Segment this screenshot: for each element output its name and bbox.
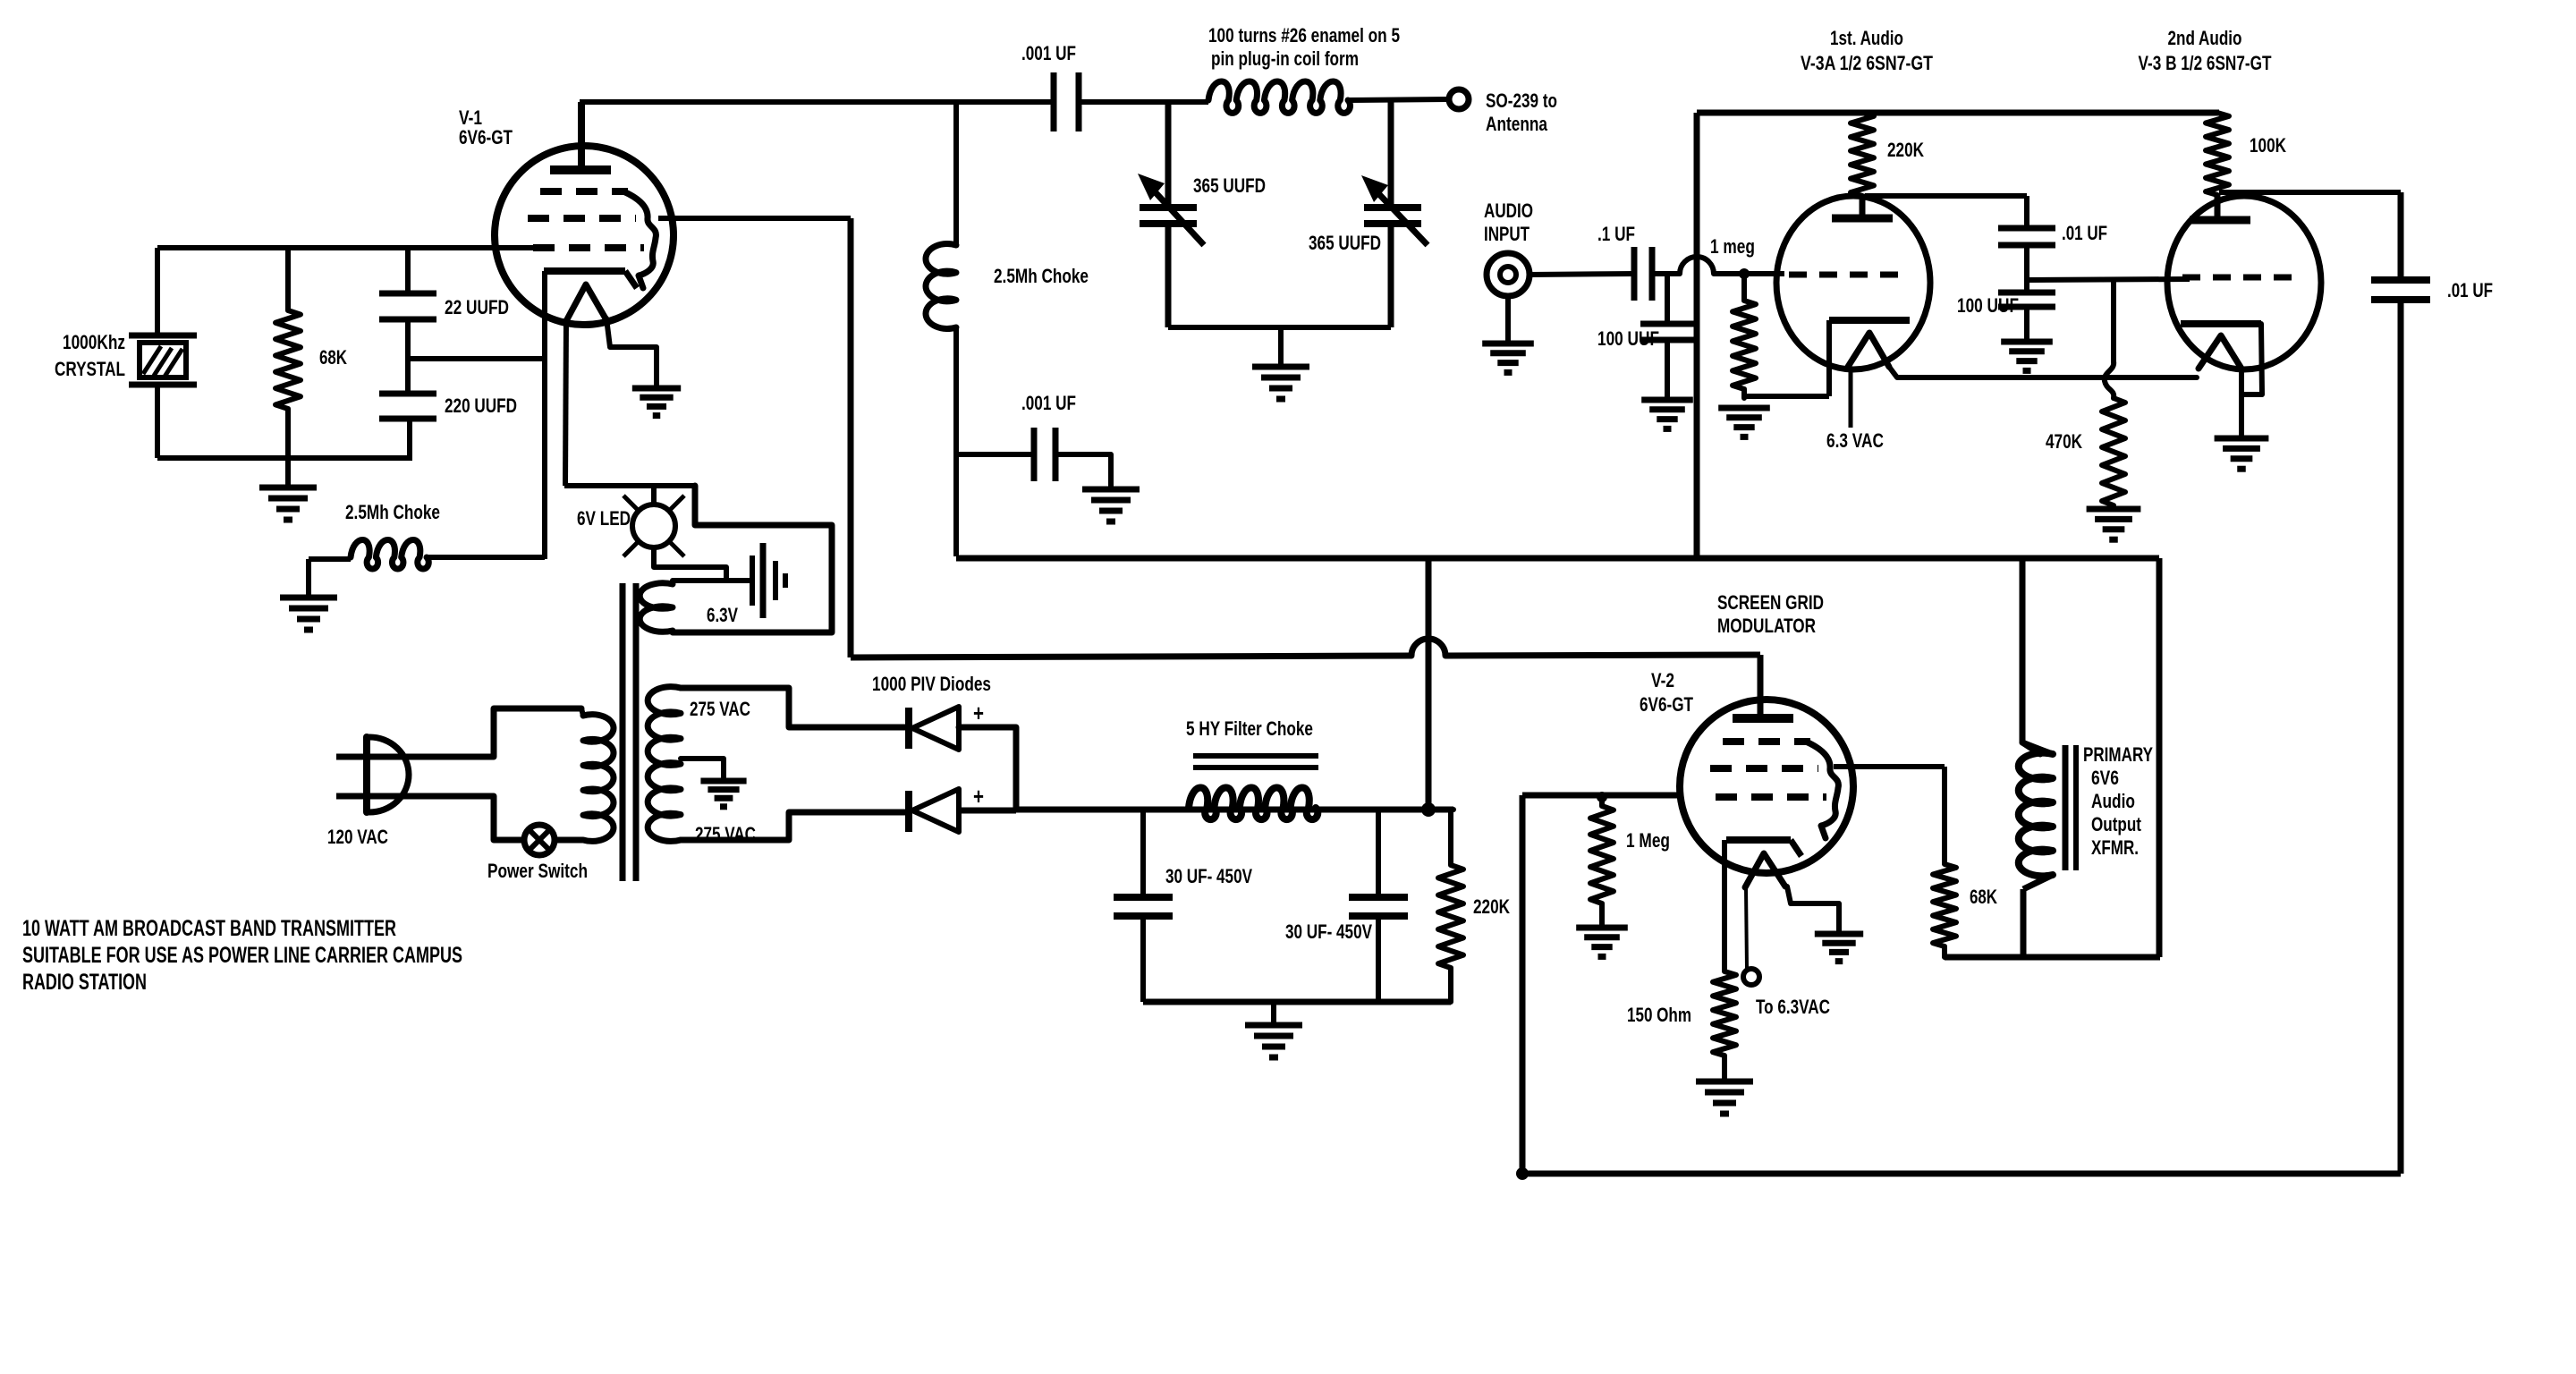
svg-text:2.5Mh Choke: 2.5Mh Choke	[994, 265, 1089, 287]
wire secondary center tap	[681, 759, 724, 779]
wire V-3B grid	[2027, 279, 2190, 280]
wire V-1 cathode down	[542, 271, 547, 559]
wire crystal left drop	[155, 248, 160, 335]
wire modulator box left	[1520, 795, 1526, 1174]
svg-text:5 HY Filter Choke: 5 HY Filter Choke	[1186, 717, 1313, 740]
wire D2 output to B+ node	[959, 808, 1016, 814]
svg-text:6V LED: 6V LED	[577, 507, 631, 530]
variable capacitor VC1 365 UUFD	[1140, 204, 1197, 211]
svg-text:XFMR.: XFMR.	[2091, 836, 2139, 859]
wire V-3A cathode to V-3B cathode	[1889, 367, 2197, 377]
svg-text:V-3A 1/2 6SN7-GT: V-3A 1/2 6SN7-GT	[1801, 52, 1933, 74]
wire audio B+ riser	[1694, 113, 1700, 558]
wire modulation to V-2 plate	[1758, 655, 1764, 718]
V-2 grid g3 (dashed)	[1716, 793, 1826, 801]
svg-text:Output: Output	[2091, 813, 2142, 835]
wire V-2 screen out	[1834, 764, 1945, 769]
wire crystal bottom drop	[155, 385, 160, 458]
svg-text:275 VAC: 275 VAC	[690, 698, 750, 720]
svg-text:220K: 220K	[1473, 895, 1510, 918]
ground at 68K bottom	[285, 458, 291, 488]
svg-text:Audio: Audio	[2091, 790, 2135, 812]
svg-text:.01 UF: .01 UF	[2062, 222, 2107, 244]
wire D1 output	[959, 727, 1016, 810]
svg-text:10 WATT AM BROADCAST BAND TRAN: 10 WATT AM BROADCAST BAND TRANSMITTER	[22, 916, 396, 941]
svg-text:220 UUFD: 220 UUFD	[445, 394, 517, 417]
V-1 heater	[567, 284, 606, 319]
resistor R1 68K	[275, 248, 301, 458]
svg-text:1000 PIV Diodes: 1000 PIV Diodes	[872, 673, 991, 695]
ground at V-3B heater	[2215, 436, 2269, 442]
transformer T2 core	[2063, 745, 2069, 870]
crystal Y1 1000Khz	[129, 333, 197, 339]
capacitor C4 .001 UF (bypass)	[1031, 428, 1038, 481]
svg-text:CRYSTAL: CRYSTAL	[55, 358, 125, 380]
V-2 plate	[1733, 714, 1793, 723]
svg-text:2nd Audio: 2nd Audio	[2168, 27, 2242, 49]
wire plug top to primary	[401, 708, 581, 757]
wire 470K riser with hop	[2111, 279, 2116, 361]
svg-text:To 6.3VAC: To 6.3VAC	[1756, 996, 1830, 1018]
V-1 heater lead right to ground	[606, 318, 657, 388]
ground at center tap	[700, 778, 746, 785]
wire modulator grid	[1522, 793, 1682, 799]
capacitor C5 30 UF- 450V (input)	[1140, 810, 1146, 897]
wire VC2 bottom	[1388, 224, 1394, 327]
wire screen modulation line	[851, 656, 1411, 657]
wire B+ bus	[956, 556, 2159, 562]
wire C3 to tank coil	[1079, 99, 1208, 105]
wire C4 to ground	[1055, 454, 1111, 489]
svg-text:.01 UF: .01 UF	[2447, 279, 2493, 301]
ground at tank	[1278, 327, 1284, 367]
ground at V-2 heater	[1815, 931, 1863, 937]
V-3A heater lead	[1849, 367, 1853, 428]
V-1 heater lead left	[565, 318, 566, 486]
svg-text:+: +	[973, 783, 984, 810]
wire C1-C2 junction	[405, 319, 411, 394]
svg-text:100K: 100K	[2250, 134, 2286, 157]
V-2 heater	[1745, 853, 1785, 887]
plug P1 120 VAC	[363, 737, 370, 812]
V-3B heater	[2199, 335, 2241, 369]
transformer T1 secondary 275-0-275	[648, 687, 681, 842]
svg-text:150 Ohm: 150 Ohm	[1627, 1004, 1691, 1026]
wire B+ riser	[1426, 558, 1432, 810]
transformer T1 core	[620, 583, 626, 881]
ground at V-2 cathode resistor	[1696, 1079, 1753, 1085]
V-3A cathode	[1829, 317, 1910, 324]
wire filter bottom bus	[1143, 999, 1451, 1005]
wire tank right drop	[1388, 102, 1394, 208]
wire cathode choke left	[309, 556, 351, 562]
junction modulator bottom left	[1516, 1167, 1529, 1180]
V-3B grid (dashed)	[2182, 275, 2292, 281]
svg-text:120 VAC: 120 VAC	[327, 826, 388, 848]
svg-text:100 UUF: 100 UUF	[1597, 327, 1659, 350]
resistor R4 1 Meg (V-2 grid)	[1590, 797, 1614, 926]
wire tank left drop	[1165, 102, 1172, 208]
capacitor C3 .001 UF (plate coupling)	[1051, 72, 1057, 131]
wire V-3B heater to ground	[2239, 369, 2244, 437]
resistor R6 1 meg (audio input)	[1733, 274, 1756, 398]
svg-text:6V6-GT: 6V6-GT	[459, 126, 513, 148]
ground at cathode choke	[306, 559, 311, 598]
capacitor C1 22 UUFD	[405, 248, 411, 293]
svg-text:100 UUF: 100 UUF	[1957, 294, 2019, 317]
junction B+ node	[1421, 802, 1436, 817]
svg-text:1000Khz: 1000Khz	[63, 331, 125, 353]
resistor R2 220K bleeder	[1451, 807, 1453, 812]
svg-text:22 UUFD: 22 UUFD	[445, 296, 509, 318]
wire LED to 6.3V winding	[654, 567, 726, 581]
wire choke to cathode	[427, 555, 545, 560]
resistor R5 68K (modulator)	[1933, 864, 1956, 957]
wire V-1 grid to crystal network	[157, 245, 533, 250]
svg-text:6.3V: 6.3V	[707, 604, 738, 626]
wire R3 to ground	[1722, 1056, 1727, 1080]
tube V-2 6V6-GT envelope	[1680, 700, 1853, 873]
V-3B cathode	[2181, 320, 2261, 327]
svg-text:100 turns #26 enamel on 5: 100 turns #26 enamel on 5	[1208, 24, 1400, 47]
capacitor C6 30 UF- 450V (output)	[1376, 810, 1381, 897]
inductor L4 5 HY Filter Choke	[1189, 788, 1318, 820]
svg-text:INPUT: INPUT	[1484, 223, 1529, 245]
switch S1 Power Switch	[524, 825, 555, 855]
svg-text:V-3 B 1/2 6SN7-GT: V-3 B 1/2 6SN7-GT	[2139, 52, 2272, 74]
wire B+ to output transformer right	[2157, 558, 2163, 957]
V-2 cathode	[1726, 836, 1791, 844]
wire .001UF bypass left	[956, 452, 1034, 457]
wire 68K bottom to xfmr	[1945, 954, 2160, 961]
V-1 cathode	[544, 267, 625, 275]
wire xfmr top lead	[2022, 558, 2040, 754]
V-3A plate	[1860, 196, 1866, 218]
wire C7 to grid with hop	[1652, 271, 1680, 276]
chassis ground (6.3V return)	[750, 556, 755, 606]
svg-text:220K: 220K	[1887, 139, 1924, 161]
ground at audio jack	[1505, 296, 1511, 342]
svg-text:365 UUFD: 365 UUFD	[1193, 174, 1266, 197]
connector J1 SO-239	[1449, 89, 1469, 109]
V-1 plate	[550, 165, 611, 174]
wire V-1 plate top	[580, 99, 1054, 105]
svg-text:470K: 470K	[2046, 430, 2082, 453]
lamp DS1 6V LED	[632, 505, 675, 547]
capacitor C2 220 UUFD	[379, 391, 436, 397]
winding 6.3V	[640, 583, 673, 632]
wire screen to 68K	[1942, 767, 1947, 864]
resistor R3 150 Ohm	[1713, 971, 1736, 1056]
tube V-3A envelope	[1776, 196, 1930, 369]
capacitor C11 .01 UF (output)	[2398, 192, 2404, 280]
wire switch to primary	[555, 837, 583, 844]
V-1 beam plate	[623, 191, 656, 288]
wire coil to SO-239	[1348, 99, 1448, 100]
wire screen riser down	[848, 218, 854, 657]
ground at filter	[1271, 1002, 1276, 1025]
svg-text:1 Meg: 1 Meg	[1626, 829, 1670, 852]
wire secondary bottom to D2	[681, 812, 907, 840]
resistor R8 470K	[2102, 398, 2125, 505]
svg-text:68K: 68K	[1970, 886, 1997, 908]
wire heater hook right	[673, 486, 832, 632]
svg-text:.1 UF: .1 UF	[1597, 223, 1635, 245]
wire V-3B plate out	[2219, 190, 2401, 195]
V-3B plate	[2215, 195, 2221, 220]
wire heater to LED row	[564, 483, 695, 488]
svg-text:Antenna: Antenna	[1486, 113, 1548, 135]
wire R6 bottom to V-3A cathode	[1744, 394, 1829, 399]
wire secondary top to D1	[681, 688, 907, 727]
svg-text:6V6: 6V6	[2091, 767, 2119, 789]
svg-text:68K: 68K	[319, 346, 347, 369]
resistor R9 100K (V-3B plate)	[2206, 113, 2229, 195]
svg-text:MODULATOR: MODULATOR	[1717, 615, 1816, 637]
V-2 beam plate	[1806, 742, 1838, 838]
wire tank bottom bus	[1168, 325, 1391, 330]
svg-text:PRIMARY: PRIMARY	[2083, 743, 2153, 766]
wire V-3A plate to C9	[1865, 193, 2027, 199]
svg-text:1 meg: 1 meg	[1710, 235, 1755, 258]
wire VC1 bottom	[1165, 224, 1172, 327]
diode D1 1000 PIV	[905, 708, 912, 749]
svg-text:30 UF- 450V: 30 UF- 450V	[1285, 920, 1372, 943]
wire V-1 cathode tap to caps	[408, 356, 545, 361]
V-1 screen grid g2 (dashed)	[528, 215, 636, 222]
V-1 grid g1 (dashed)	[540, 188, 628, 195]
transformer T2 primary (audio output)	[2019, 753, 2053, 877]
ground at R8	[2087, 506, 2141, 513]
wire rectifier to filter	[1016, 807, 1453, 813]
svg-text:SUITABLE FOR USE AS POWER LINE: SUITABLE FOR USE AS POWER LINE CARRIER C…	[22, 943, 462, 968]
wire C2 to bottom bus	[407, 419, 412, 458]
svg-text:30 UF- 450V: 30 UF- 450V	[1165, 865, 1252, 887]
wire crystal bottom bus	[157, 455, 412, 461]
ground at C8	[1641, 397, 1693, 403]
svg-text:2.5Mh Choke: 2.5Mh Choke	[345, 501, 440, 523]
connector J2 AUDIO INPUT	[1487, 253, 1529, 296]
resistor R7 220K (V-3A plate)	[1851, 113, 1874, 196]
ground at R6	[1718, 405, 1770, 411]
ground at V-1 heater	[632, 386, 681, 392]
capacitor C10 100 UUF	[1998, 290, 2055, 296]
variable capacitor VC2 365 UUFD	[1364, 204, 1421, 211]
wire V-2 cathode down	[1722, 840, 1727, 971]
svg-text:SCREEN GRID: SCREEN GRID	[1717, 591, 1824, 614]
svg-text:+: +	[973, 700, 984, 726]
tube V-1 6V6-GT envelope	[495, 146, 674, 325]
wire V-1 screen to riser	[658, 216, 851, 221]
inductor L1 2.5Mh Choke (cathode)	[351, 540, 428, 570]
wire jack to C7	[1529, 274, 1634, 275]
svg-text:.001 UF: .001 UF	[1021, 42, 1076, 64]
inductor L2 100 turns coil	[1208, 81, 1350, 113]
svg-text:365 UUFD: 365 UUFD	[1309, 232, 1381, 254]
V-3A grid (dashed)	[1789, 272, 1901, 278]
V-2 grid g1 (dashed)	[1723, 738, 1810, 745]
capacitor C7 .1 UF	[1631, 247, 1638, 301]
junction grid-1Meg	[1597, 792, 1607, 802]
svg-text:V-2: V-2	[1651, 669, 1674, 691]
svg-text:pin plug-in coil form: pin plug-in coil form	[1211, 47, 1359, 70]
junction grid-1meg pot	[1739, 268, 1750, 279]
wire audio B+ bus	[1697, 110, 2219, 116]
svg-text:Power Switch: Power Switch	[487, 860, 588, 882]
svg-text:RADIO STATION: RADIO STATION	[22, 970, 147, 995]
capacitor C8 100 UUF (input filter)	[1665, 274, 1670, 324]
tube V-3B envelope	[2167, 196, 2321, 369]
wire modulator bottom bus	[1522, 1171, 2401, 1177]
svg-text:6.3 VAC: 6.3 VAC	[1826, 429, 1884, 452]
V-2 screen grid g2 (dashed)	[1710, 765, 1818, 772]
capacitor C9 .01 UF (coupling)	[1998, 225, 2055, 232]
wire C9 to grid junction	[2024, 245, 2029, 293]
V-1 grid g3 (dashed)	[533, 244, 644, 251]
transformer T1 primary 120V	[583, 715, 614, 842]
ground at C10	[2001, 339, 2053, 345]
ground at R4	[1576, 925, 1628, 931]
wire plug bottom to switch	[402, 796, 524, 840]
svg-text:SO-239 to: SO-239 to	[1486, 89, 1557, 112]
wire V-3A cathode left	[1826, 320, 1832, 396]
svg-text:6V6-GT: 6V6-GT	[1640, 693, 1693, 716]
svg-text:AUDIO: AUDIO	[1484, 199, 1533, 222]
V-2 heater lead right to ground	[1787, 886, 1839, 934]
svg-text:1st. Audio: 1st. Audio	[1830, 27, 1903, 49]
V-2 heater lead	[1746, 887, 1747, 969]
inductor L3 2.5Mh Choke (plate feed)	[953, 102, 959, 245]
terminal to 6.3VAC	[1743, 969, 1759, 985]
diode D2 1000 PIV	[905, 791, 912, 832]
svg-text:.001 UF: .001 UF	[1021, 392, 1076, 414]
